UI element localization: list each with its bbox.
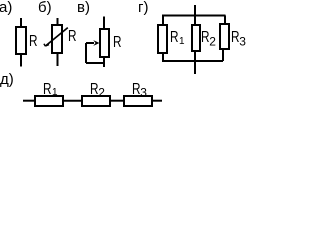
svg-text:R: R: [113, 34, 122, 51]
svg-text:R: R: [29, 33, 38, 50]
svg-text:R: R: [68, 28, 77, 45]
svg-text:R: R: [43, 81, 52, 98]
svg-text:а): а): [0, 0, 12, 16]
svg-text:1: 1: [179, 36, 185, 47]
svg-text:2: 2: [209, 35, 216, 49]
svg-text:R: R: [170, 29, 179, 46]
svg-text:б): б): [38, 0, 52, 16]
svg-text:2: 2: [98, 86, 105, 100]
svg-text:г): г): [138, 0, 148, 16]
svg-text:1: 1: [52, 87, 58, 98]
svg-text:д): д): [0, 71, 14, 88]
svg-text:3: 3: [239, 35, 246, 49]
svg-text:в): в): [77, 0, 90, 16]
svg-text:3: 3: [140, 86, 147, 100]
